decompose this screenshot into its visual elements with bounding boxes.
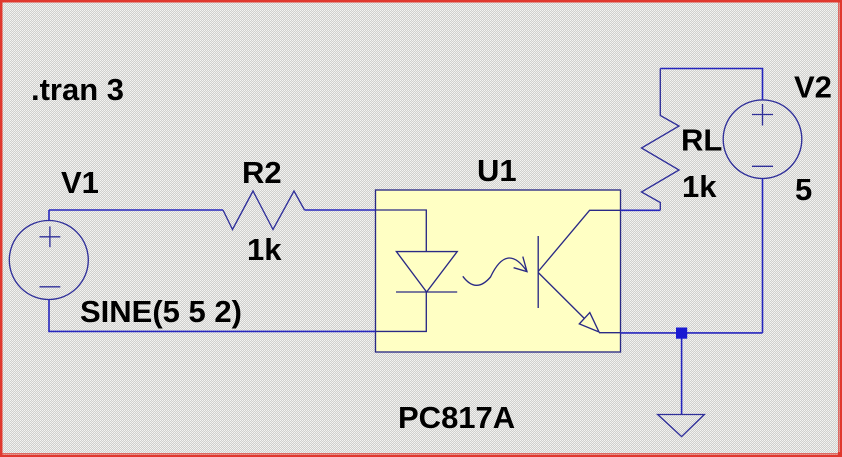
U1 LED cathode wire: [376, 292, 427, 331]
U1 phototransistor: [538, 210, 620, 332]
svg-text:1k: 1k: [247, 232, 282, 267]
svg-text:.tran 3: .tran 3: [31, 72, 124, 107]
svg-text:1k: 1k: [682, 169, 717, 204]
U1 LED diode: [396, 252, 457, 292]
voltage source V2: [723, 100, 802, 179]
wire RL top to V2: [660, 69, 762, 100]
svg-text:V1: V1: [61, 165, 99, 200]
wire junction to ground: [681, 339, 683, 415]
svg-text:RL: RL: [681, 123, 722, 158]
voltage source V1: [9, 221, 88, 300]
wire V1 top to R2: [49, 209, 223, 211]
svg-text:5: 5: [795, 172, 812, 207]
svg-text:SINE(5 5 2): SINE(5 5 2): [80, 294, 242, 329]
wire emitter to V2 bottom: [621, 332, 763, 334]
wire V1 bottom lead: [49, 300, 376, 332]
junction node: [676, 328, 687, 339]
wire V2 bottom lead: [762, 179, 764, 333]
svg-text:PC817A: PC817A: [398, 400, 515, 435]
resistor RL: [642, 69, 680, 211]
svg-text:R2: R2: [242, 155, 282, 190]
svg-text:U1: U1: [477, 153, 517, 188]
U1 LED anode wire: [376, 210, 427, 252]
ground: [658, 415, 705, 437]
wire V1 top lead: [48, 210, 50, 221]
svg-text:V2: V2: [794, 70, 832, 105]
wire R2 to U1: [305, 209, 377, 211]
optocoupler U1 body: [376, 190, 621, 352]
wire U1 collector to RL: [621, 209, 661, 211]
resistor R2: [223, 191, 305, 230]
U1 light-coupling arrow: [463, 257, 527, 286]
